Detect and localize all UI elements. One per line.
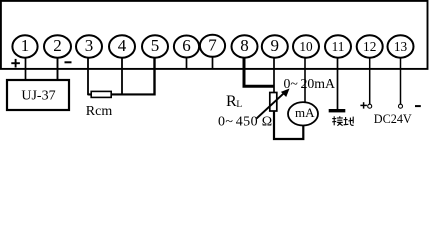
terminal strip border (1, 1, 428, 69)
terminal 8 (232, 35, 258, 57)
svg-text:L: L (236, 100, 242, 110)
wire Rcm horizontal run (88, 93, 155, 95)
wire terminal3 down to Rcm (88, 58, 91, 95)
terminal 12 (357, 35, 383, 57)
wire terminal12 down to DC24V plus terminal (369, 58, 371, 105)
terminal 6 (174, 36, 199, 58)
char JIE (333, 116, 335, 125)
svg-text:10: 10 (299, 39, 313, 54)
potentiometer RL body (270, 93, 277, 112)
plus sign (DC24V) (360, 102, 367, 108)
wire terminal4 down to Rcm wire (121, 58, 123, 95)
svg-text:8: 8 (240, 36, 249, 55)
wire terminal13 down to DC24V minus terminal (400, 58, 402, 105)
DC24V plus terminal node (368, 104, 372, 108)
terminal 13 (388, 35, 414, 57)
plus sign (UJ-37 polarity) (11, 59, 20, 68)
svg-text:12: 12 (363, 39, 376, 54)
svg-text:0~450: 0~450 (218, 114, 258, 129)
terminal 1 (12, 35, 37, 57)
terminal 10 (293, 35, 319, 57)
svg-text:R: R (226, 93, 237, 110)
svg-text:9: 9 (271, 36, 280, 55)
wire terminal9 down to potentiometer top (273, 58, 275, 93)
wire potentiometer bottom to mA meter bottom (274, 111, 303, 139)
svg-text:Ω: Ω (262, 114, 272, 129)
svg-text:6: 6 (182, 36, 191, 55)
char DI (345, 117, 347, 125)
wire terminal5 down to Rcm wire (153, 58, 155, 96)
minus sign (UJ-37 polarity) (65, 61, 72, 63)
stub terminal 7 (212, 57, 214, 69)
wire terminal2 to UJ-37 (57, 58, 59, 81)
ammeter mA (288, 102, 318, 125)
svg-text:3: 3 (85, 36, 94, 55)
svg-text:DC24V: DC24V (374, 112, 412, 126)
instrument box UJ-37 (7, 80, 69, 110)
wire terminal10 down to mA meter top (304, 58, 306, 103)
wire terminal8 bold L to potentiometer top (244, 58, 274, 87)
wire terminal1 to UJ-37 (25, 58, 27, 81)
ground bar (329, 109, 346, 112)
svg-text:11: 11 (332, 39, 345, 54)
terminal 4 (109, 35, 135, 57)
svg-text:mA: mA (295, 105, 315, 120)
terminal 9 (262, 35, 288, 57)
svg-text:1: 1 (21, 36, 30, 55)
svg-text:Rcm: Rcm (86, 104, 113, 119)
terminal 3 (76, 35, 102, 57)
minus sign (DC24V) (415, 105, 421, 107)
svg-text:2: 2 (53, 36, 62, 55)
terminal 2 (44, 35, 71, 57)
stub terminal 6 (186, 58, 188, 70)
label RL (226, 93, 242, 110)
terminal 7 (200, 35, 225, 57)
DC24V minus terminal node (399, 104, 403, 108)
svg-text:7: 7 (208, 35, 217, 54)
label jiedi (ground) hand-drawn glyphs (332, 116, 353, 126)
svg-text:UJ-37: UJ-37 (21, 88, 55, 103)
terminal 5 (142, 35, 168, 57)
terminal 11 (325, 35, 351, 57)
svg-text:0~20mA: 0~20mA (284, 76, 336, 91)
svg-text:4: 4 (118, 36, 127, 55)
svg-text:13: 13 (394, 39, 408, 54)
resistor Rcm (91, 91, 111, 97)
wire terminal11 down to ground (337, 58, 339, 111)
svg-text:5: 5 (151, 36, 160, 55)
potentiometer RL wiper arrow (257, 89, 290, 119)
